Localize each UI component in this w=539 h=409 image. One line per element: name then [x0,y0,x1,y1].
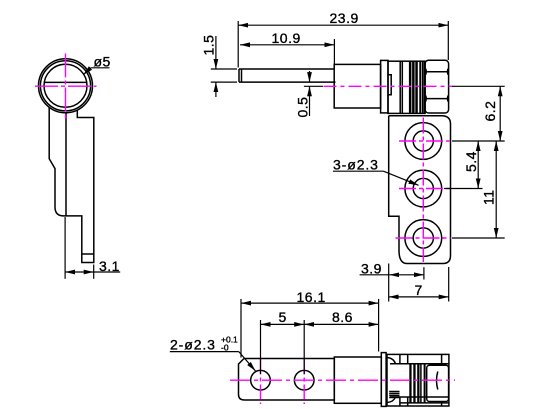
flange clip detail [388,75,391,95]
hex facet line lower [425,98,449,100]
dim 23.9 line [238,24,448,26]
hole 2 centerline [399,188,451,190]
hole 2 boss [405,170,442,207]
dim 5 extension lines [260,320,262,374]
hex nut [425,60,449,113]
left view centerline horizontal [35,85,97,87]
hole 3 centerline [396,237,451,239]
svg-text:0.5: 0.5 [295,97,311,118]
svg-text:3-ø2.3: 3-ø2.3 [333,157,379,173]
barrel groove line B [401,61,403,114]
dim 3.1 line [65,271,94,273]
bottom shoulder curve [387,358,396,364]
hole 1 centerline [399,140,451,142]
dim 10.9 line [240,44,334,46]
svg-text:ø5: ø5 [94,54,111,70]
label 3-Ø2.3 [333,171,419,185]
plate vertical centerline [422,118,424,263]
left view outer circle [39,59,93,113]
plate outline [389,116,451,264]
dim 8.6 line [304,323,378,325]
hole 3 [413,228,433,248]
svg-text:10.9: 10.9 [272,30,301,46]
dim 7 extension lines [388,264,390,302]
barrel groove line A [399,61,401,114]
left view body outline [49,108,94,263]
centerline top view [304,85,323,87]
bottom barrel bottom band line [390,396,449,398]
bottom flange [381,353,386,407]
left view centerline vertical [35,54,97,119]
bottom barrel top band line [390,363,449,365]
left view inner circle [44,64,87,107]
left view ring circle [40,61,90,111]
barrel groove line D [423,61,425,113]
bottom centerline horizontal [230,379,455,381]
dim 3.1 extension lines [64,217,66,279]
hex facet pinch arcs [426,69,449,102]
bottom hole 1 centerline [260,360,262,405]
left view chord flat [44,81,86,83]
dim 5 line [261,323,305,325]
left view tab step line [82,253,94,255]
bottom hole 2 centerline [303,360,305,405]
dim 1.5 extension lines [211,68,237,70]
dim 23.9 extension lines [237,21,239,68]
bottom hole 1 [251,370,271,390]
svg-text:8.6: 8.6 [332,309,353,325]
svg-text:5.4: 5.4 [463,151,479,172]
svg-text:1.5: 1.5 [201,35,217,56]
hex facet line upper [425,71,449,73]
svg-text:7: 7 [415,282,423,298]
svg-text:16.1: 16.1 [297,289,326,305]
dim 16.1 extension lines [240,299,242,358]
dim 11 line [495,141,497,238]
svg-text:2-ø2.3: 2-ø2.3 [170,336,216,352]
pin outline [239,68,334,70]
barrel section [388,61,425,113]
dim 5.4 extension line [444,188,483,190]
dim 11 extension line [452,237,505,239]
bottom hole 2 [294,370,314,390]
dim 16.1 line [241,302,379,304]
dim 0.5 arrow lines [309,71,311,82]
left view inner edge line [65,113,67,216]
barrel dark bars [409,61,421,113]
bottom body [334,357,381,403]
hole 3 boss [405,220,442,257]
svg-text:6.2: 6.2 [482,101,498,122]
label 2-Ø2.3 tolerance [170,352,256,371]
hole 2 [413,178,433,198]
dim 6.2 line [499,86,501,141]
svg-text:-0: -0 [221,343,229,353]
hole 1 boss [405,123,442,160]
svg-text:5: 5 [279,309,287,325]
label Ø5 leader [83,68,109,75]
bottom band separators [399,354,401,363]
body rectangle [334,64,380,108]
dim 5.4 line [477,141,479,189]
dim 1.5 arrow lines [215,36,217,69]
bottom hex facet face [427,365,449,401]
bottom groove thin line [420,364,422,403]
dim 6.2 extension lines [452,85,505,87]
bottom barrel outline [387,354,449,406]
svg-text:23.9: 23.9 [330,10,359,26]
svg-text:3.1: 3.1 [99,258,120,274]
bottom hatch block [389,391,399,393]
svg-text:11: 11 [481,189,497,205]
dim 10.9 extension line [333,39,335,64]
hole 1 [413,131,433,151]
bottom plate outline [239,359,335,401]
dim 3.9 line [360,274,390,276]
svg-text:3.9: 3.9 [361,260,382,276]
dim 3.9 extension line [423,267,425,279]
barrel groove line C [422,61,424,113]
dim 7 line [389,296,449,298]
flange [381,60,388,113]
bottom barrel dark bars [409,364,425,403]
